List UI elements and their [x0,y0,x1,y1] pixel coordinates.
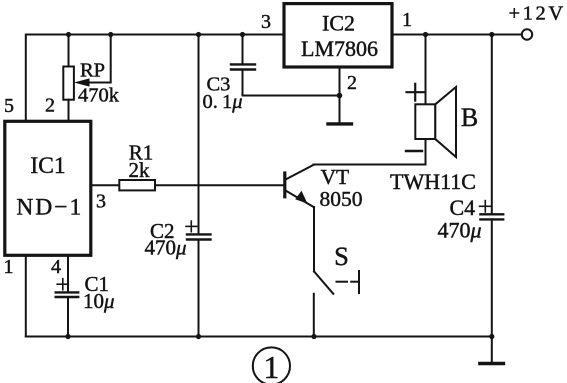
resistor R1 body [119,180,155,190]
svg-text:10μ: 10μ [83,289,115,313]
wire C3 branch top [242,35,244,64]
wire IC2 pin2 down [339,67,341,122]
speaker B horn [435,87,456,157]
svg-text:RP: RP [80,60,105,82]
node dot speaker branch [423,32,428,37]
wire vertical rail lower (C2 to bottom) [198,240,200,337]
wire bottom rail [26,336,492,338]
svg-text:IC1: IC1 [30,153,65,179]
node dot C1 bottom [65,334,70,339]
C4 polarity plus [480,205,492,207]
regulator IC2 box [284,4,392,67]
node dot RP top [66,32,71,37]
node dot C2 bottom [196,334,201,339]
transistor VT base bar [283,173,286,197]
svg-text:1: 1 [263,349,279,383]
svg-text:IC2: IC2 [322,11,355,36]
svg-text:C4: C4 [450,195,476,220]
ground under IC2 pin2 [328,122,352,125]
wire RP bottom to pin2 [68,100,70,122]
svg-text:+12V: +12V [509,3,566,25]
node dot rail top [196,32,201,37]
node dot C3 top [240,32,245,37]
wire pin1 vertical [25,255,27,336]
svg-text:2: 2 [45,95,55,117]
terminal +12V circle [522,29,532,39]
wire C4 rail upper [491,35,493,214]
svg-text:B: B [461,103,478,132]
C1 polarity plus [57,283,68,285]
svg-text:470μ: 470μ [438,218,482,243]
wire speaker branch lower [425,139,427,165]
svg-text:S: S [334,241,349,271]
wire RP top [68,35,70,67]
svg-text:470k: 470k [78,85,120,107]
figure number circle 1 [253,347,290,383]
RP wiper arrowhead [74,78,90,86]
svg-text:4: 4 [51,256,61,278]
capacitor C2 plates [187,233,211,235]
wire pin4 to C1 [67,255,69,291]
wire RP wiper branch [89,35,111,83]
wire vertical rail upper (to C2) [198,35,200,234]
svg-text:8050: 8050 [320,187,363,211]
switch S actuator bar [358,271,360,293]
node dot pin2/C3 [337,93,343,99]
wire pin3 to R1 [91,184,119,186]
svg-text:5: 5 [4,95,14,117]
emitter arrowhead [295,191,307,204]
speaker minus sign [406,150,422,152]
svg-text:2k: 2k [129,158,151,182]
wire top rail left [26,34,284,36]
svg-text:TWH11C: TWH11C [390,169,476,194]
potentiometer RP body [63,67,74,100]
svg-text:VT: VT [321,165,350,189]
switch S blade [314,271,333,293]
switch S lower contact wire [313,294,315,337]
wire emitter vertical [313,207,315,271]
switch S linkage dashes [337,281,348,283]
ground bottom right stem [491,337,493,363]
transistor collector line [286,165,314,180]
svg-text:1: 1 [402,9,412,31]
svg-text:LM7806: LM7806 [301,36,378,61]
svg-text:0. 1μ: 0. 1μ [203,91,243,113]
svg-text:1: 1 [4,256,14,278]
svg-text:3: 3 [261,11,271,33]
wire pin5 vertical [25,35,27,122]
node dot switch bottom [311,334,316,339]
speaker B body [415,104,435,139]
wire R1 to base [155,184,283,186]
wire collector rail [314,164,426,166]
wire speaker branch upper [425,35,427,105]
capacitor C1 plates [56,291,78,293]
op-amp IC1 box [5,121,91,255]
svg-text:ND−1: ND−1 [16,195,83,221]
wire C4 rail lower [491,219,493,336]
wire top rail right [392,34,522,36]
svg-text:470μ: 470μ [145,236,187,260]
node dot ground right [489,334,494,339]
C2 polarity plus [186,225,197,227]
node dot C4 branch [489,32,494,37]
wire C3 to pin2 node [243,70,340,96]
capacitor C4 plates [480,213,503,215]
capacitor C3 plates [231,63,255,65]
speaker plus sign [407,91,425,93]
wire C1 to bottom [67,297,69,337]
svg-text:2: 2 [347,72,357,94]
ground bottom right bar [480,362,504,365]
node dot wiper top [108,32,113,37]
transistor emitter line [286,191,314,207]
svg-text:3: 3 [96,190,106,212]
